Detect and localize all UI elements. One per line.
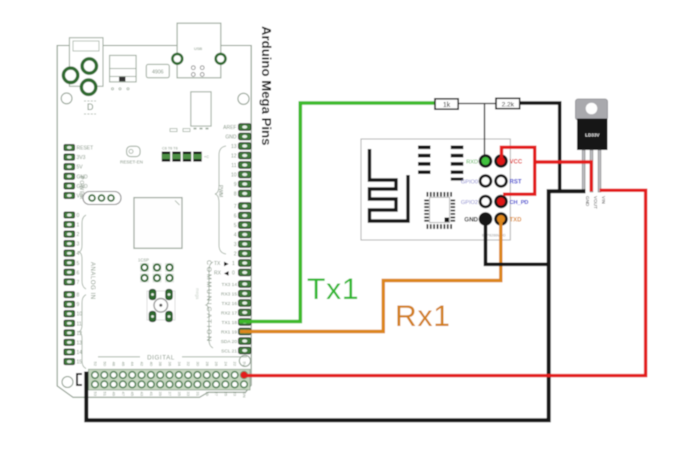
junction drop to RXD — [484, 104, 486, 158]
resistor R2 2.2k — [496, 98, 520, 108]
header end bracket — [77, 374, 82, 385]
ESP8266 ESP-01 module U2 — [361, 139, 510, 240]
svg-text:22: 22 — [233, 362, 238, 367]
svg-text:C6 T6 T6: C6 T6 T6 — [162, 147, 178, 151]
ESP8266 chip (QFN) — [427, 194, 454, 226]
reset button SW1 — [147, 289, 175, 321]
svg-text:45: 45 — [130, 392, 135, 397]
svg-text:3V3: 3V3 — [77, 155, 86, 161]
svg-text:49: 49 — [112, 392, 117, 397]
3-pin aux connector — [83, 192, 121, 205]
svg-text:ANALOG IN: ANALOG IN — [89, 262, 95, 300]
svg-text:Arduino Mega Pins: Arduino Mega Pins — [259, 26, 274, 145]
svg-text:RX1 19: RX1 19 — [221, 330, 237, 336]
diode D symbol — [84, 101, 96, 114]
PCB antenna — [370, 149, 409, 221]
svg-text:USB: USB — [194, 46, 203, 51]
svg-text:GPIO0: GPIO0 — [461, 179, 478, 185]
ICSP header — [138, 258, 174, 283]
mounting hole bottom-left — [62, 377, 73, 388]
svg-text:PWM: PWM — [217, 185, 223, 197]
crystal 4906 — [146, 64, 169, 77]
svg-text:1: 1 — [77, 223, 80, 229]
svg-text:2.2k: 2.2k — [502, 102, 515, 109]
svg-text:29: 29 — [205, 392, 210, 397]
ESP pin GND — [480, 214, 491, 225]
svg-text:TX3 14: TX3 14 — [222, 282, 238, 288]
svg-text:TX: TX — [214, 261, 221, 267]
ESP pin RXD — [480, 156, 491, 167]
resistor R1 1k — [435, 99, 458, 109]
svg-text:40: 40 — [149, 362, 154, 367]
mounting hole top-right — [238, 93, 249, 104]
svg-text:◀: ◀ — [224, 271, 229, 277]
svg-text:+C: +C — [204, 155, 209, 159]
svg-text:SDA 20: SDA 20 — [221, 339, 238, 345]
svg-text:DIGITAL: DIGITAL — [147, 354, 175, 361]
svg-text:11: 11 — [231, 163, 236, 169]
svg-text:36: 36 — [168, 362, 173, 367]
RESET-EN jumper — [120, 146, 143, 164]
svg-text:mega: mega — [195, 288, 200, 300]
svg-text:47: 47 — [121, 392, 126, 397]
svg-text:RX3 15: RX3 15 — [221, 292, 237, 298]
svg-text:COMMUNICATION: COMMUNICATION — [205, 260, 212, 343]
svg-text:9: 9 — [77, 302, 80, 308]
svg-text:RX2 17: RX2 17 — [221, 311, 237, 317]
wire green TX1: Arduino pin 18 to resistor R1 — [239, 103, 435, 322]
svg-text:37: 37 — [168, 392, 173, 397]
svg-text:9: 9 — [234, 182, 237, 188]
red pin node on Arduino header — [241, 372, 248, 379]
svg-text:D: D — [87, 102, 94, 112]
svg-text:15: 15 — [77, 360, 83, 366]
svg-text:VCC: VCC — [510, 160, 523, 166]
capacitor C1 — [110, 55, 137, 90]
svg-text:3: 3 — [234, 242, 237, 248]
Arduino Mega board outline — [57, 46, 251, 398]
svg-text:14: 14 — [77, 350, 83, 356]
DC power jack J1 — [63, 38, 103, 95]
svg-text:8: 8 — [234, 192, 237, 198]
svg-text:10: 10 — [77, 312, 83, 318]
svg-text:38: 38 — [158, 362, 163, 367]
SMD parts column A — [418, 146, 431, 175]
wire black ESP GND branch — [486, 220, 551, 264]
svg-text:12: 12 — [231, 154, 237, 160]
svg-text:0: 0 — [232, 271, 235, 277]
ESP pin GPIO2 — [480, 196, 491, 207]
left power header — [64, 144, 93, 199]
svg-text:24: 24 — [223, 362, 228, 367]
svg-text:RX: RX — [214, 271, 222, 277]
svg-text:0: 0 — [77, 213, 80, 219]
svg-text:Tx1: Tx1 — [307, 273, 359, 306]
svg-text:2: 2 — [234, 252, 237, 258]
TX0/RX0 pins — [214, 260, 251, 277]
svg-text:RESET-EN: RESET-EN — [120, 160, 143, 165]
svg-text:41: 41 — [149, 392, 154, 397]
svg-text:31: 31 — [195, 392, 200, 397]
svg-text:46: 46 — [121, 362, 126, 367]
svg-text:11: 11 — [77, 321, 82, 327]
svg-text:4906: 4906 — [152, 70, 164, 76]
svg-text:1CSP: 1CSP — [138, 258, 149, 263]
svg-text:1k: 1k — [443, 102, 451, 109]
svg-text:27: 27 — [214, 392, 219, 397]
svg-text:42: 42 — [140, 362, 145, 367]
svg-text:TXD: TXD — [510, 218, 523, 224]
svg-text:TX2 16: TX2 16 — [222, 301, 238, 307]
ESP pin labels left — [461, 159, 479, 223]
svg-text:2: 2 — [77, 232, 80, 238]
ESP pin GPIO0 — [480, 176, 491, 187]
svg-text:CH_PD: CH_PD — [510, 200, 529, 206]
on-board 5V regulator — [170, 92, 211, 132]
wire red VCC net: ESP VCC / CH_PD to regulator VOUT — [502, 147, 535, 194]
wire R1 to R2 — [458, 103, 496, 105]
svg-text:34: 34 — [177, 362, 182, 367]
svg-text:GN: GN — [242, 392, 247, 398]
svg-text:30: 30 — [195, 362, 200, 367]
svg-text:13: 13 — [231, 144, 237, 150]
svg-text:35: 35 — [177, 392, 182, 397]
svg-text:SCL 21: SCL 21 — [221, 349, 237, 355]
svg-text:10: 10 — [231, 173, 237, 179]
svg-text:32: 32 — [186, 362, 191, 367]
svg-text:8: 8 — [77, 293, 80, 299]
wire red VIN net: regulator VIN to Arduino 5V — [243, 190, 646, 375]
svg-text:26: 26 — [214, 362, 219, 367]
svg-text:48: 48 — [112, 362, 117, 367]
svg-text:RST: RST — [510, 180, 522, 186]
svg-text:TX1 18: TX1 18 — [222, 320, 238, 326]
ESP pin VCC — [496, 156, 507, 167]
svg-text:28: 28 — [205, 362, 210, 367]
regulator legs — [582, 150, 585, 192]
svg-text:23: 23 — [233, 392, 238, 397]
svg-text:6: 6 — [234, 214, 237, 220]
svg-text:AREF: AREF — [223, 125, 236, 131]
svg-text:▶: ▶ — [224, 261, 229, 267]
svg-text:33: 33 — [186, 392, 191, 397]
svg-text:VOUT: VOUT — [593, 196, 598, 209]
svg-text:52: 52 — [93, 362, 98, 367]
ATmega2560 U1 — [134, 198, 182, 249]
svg-text:39: 39 — [158, 392, 163, 397]
svg-text:GND: GND — [585, 196, 590, 207]
USB connector J2 — [172, 23, 225, 78]
svg-text:53: 53 — [93, 392, 98, 397]
svg-text:5V: 5V — [77, 165, 84, 171]
mounting hole top-left — [61, 93, 72, 104]
svg-text:VIN: VIN — [601, 196, 606, 204]
svg-text:3: 3 — [77, 242, 80, 248]
PWM label and brace — [215, 146, 226, 254]
svg-text:7: 7 — [234, 204, 237, 210]
svg-text:LD33V: LD33V — [585, 133, 600, 138]
digital double-row header — [89, 362, 251, 398]
analog header A0-A15 — [64, 212, 86, 369]
svg-text:5: 5 — [77, 261, 80, 267]
svg-text:6: 6 — [77, 270, 80, 276]
regulator LD33V U3 — [576, 99, 608, 209]
ESP pin TXD — [496, 214, 507, 225]
svg-text:GND: GND — [225, 135, 237, 141]
svg-text:1: 1 — [232, 261, 235, 267]
SMD capacitor group — [162, 147, 209, 162]
svg-text:5: 5 — [234, 223, 237, 229]
svg-text:GPIO2: GPIO2 — [461, 200, 478, 206]
ESP pin labels right — [510, 160, 529, 224]
svg-text:4: 4 — [234, 233, 237, 239]
svg-text:44: 44 — [130, 362, 135, 367]
DIGITAL label — [98, 354, 247, 361]
SMD parts column B — [451, 146, 464, 181]
svg-text:RESET: RESET — [77, 146, 94, 152]
communication header 14-21 — [206, 262, 251, 355]
mounting hole bottom-right — [239, 355, 250, 366]
svg-text:25: 25 — [223, 392, 228, 397]
ESP pin CH_PD — [496, 196, 507, 207]
svg-text:50: 50 — [102, 362, 107, 367]
svg-text:43: 43 — [140, 392, 145, 397]
svg-text:51: 51 — [102, 392, 107, 397]
svg-text:GND: GND — [464, 217, 478, 224]
right digital header AREF-0 — [223, 124, 251, 258]
svg-text:5V: 5V — [242, 362, 247, 367]
svg-text:RXD: RXD — [466, 159, 478, 165]
svg-text:13: 13 — [77, 340, 83, 346]
wire black GND trunk — [520, 103, 560, 191]
svg-text:7: 7 — [77, 280, 80, 286]
wire orange RX1: Arduino pin 19 to ESP TXD — [240, 221, 501, 332]
ESP pin RST — [496, 176, 507, 187]
svg-text:Rx1: Rx1 — [395, 300, 451, 333]
